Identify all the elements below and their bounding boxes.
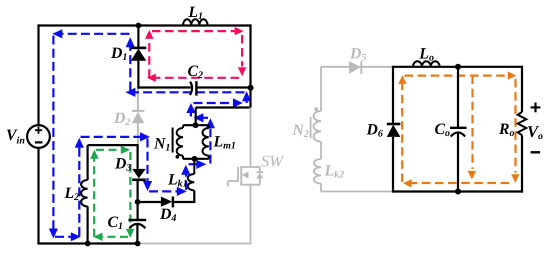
svg-text:SW: SW [261, 152, 284, 171]
